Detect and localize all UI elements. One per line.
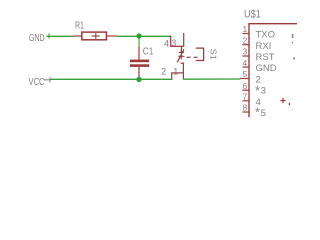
wire GND net left segment <box>47 35 74 37</box>
svg-text:U$1: U$1 <box>244 9 261 21</box>
svg-text:*: * <box>255 83 260 98</box>
capacitor C1 <box>130 47 149 79</box>
switch S1 bottom contact <box>181 63 185 73</box>
switch S1 lever <box>177 49 184 62</box>
svg-text:VCC: VCC <box>29 76 46 87</box>
svg-text:2: 2 <box>242 35 247 45</box>
IC U$1 pin 7 <box>242 100 249 102</box>
svg-text:GND: GND <box>29 32 45 44</box>
svg-text:RXI: RXI <box>256 41 272 52</box>
node VCC pin cross <box>44 77 51 82</box>
svg-text:*: * <box>255 105 260 117</box>
svg-text:3: 3 <box>242 47 247 57</box>
switch S1 pin 3 <box>183 33 185 46</box>
IC U$1 body <box>249 23 297 117</box>
svg-text:5: 5 <box>261 108 266 117</box>
IC U$1 red tick right <box>289 103 291 106</box>
junction bottom <box>136 77 141 82</box>
svg-text:TXO: TXO <box>256 30 276 41</box>
switch S1 dashed link <box>187 56 198 58</box>
svg-text:1: 1 <box>242 24 247 34</box>
IC U$1 pin numbers <box>242 24 247 113</box>
IC U$1 pin names <box>255 30 277 120</box>
junction top <box>136 33 141 38</box>
switch S1 pin 4 <box>170 36 172 47</box>
IC U$1 origin cross <box>280 98 285 103</box>
svg-text:S1: S1 <box>209 49 218 60</box>
wire VCC net left segment <box>50 78 171 80</box>
switch S1 pin 1 <box>182 73 184 80</box>
svg-text:GND: GND <box>256 63 277 74</box>
svg-text:5: 5 <box>242 69 247 79</box>
svg-text:7: 7 <box>242 92 247 102</box>
svg-text:R1: R1 <box>75 19 84 31</box>
IC U$1 pin 4 <box>242 66 249 68</box>
IC U$1 clipped right-side pin name slivers <box>292 34 295 60</box>
resistor R1 <box>73 32 117 40</box>
wire VCC net right segment <box>184 78 240 80</box>
IC U$1 pin 1 <box>242 33 249 35</box>
switch S1 button bracket <box>196 48 204 60</box>
svg-text:C1: C1 <box>143 46 153 57</box>
svg-text:3: 3 <box>261 86 266 97</box>
svg-text:8: 8 <box>242 103 247 113</box>
IC U$1 pin 3 <box>242 55 249 57</box>
node GND label <box>29 32 45 44</box>
switch S1 top bar <box>170 45 184 47</box>
svg-text:RST: RST <box>256 52 275 63</box>
switch S1 bottom bar <box>171 72 184 74</box>
IC U$1 pin 2 <box>242 44 249 46</box>
svg-text:6: 6 <box>242 81 247 91</box>
IC U$1 pin 6 <box>242 89 249 91</box>
svg-text:1: 1 <box>173 67 178 77</box>
svg-text:2: 2 <box>161 67 166 77</box>
svg-text:4: 4 <box>164 38 169 48</box>
IC U$1 pin 8 <box>242 111 249 113</box>
switch S1 top contact <box>179 46 184 52</box>
svg-text:4: 4 <box>242 58 247 68</box>
switch S1 origin cross <box>178 53 184 59</box>
switch S1 pin 2 <box>171 73 173 80</box>
IC U$1 pin 5 <box>240 78 250 80</box>
wire junction to C1 <box>138 36 140 47</box>
wire GND net right segment <box>117 35 171 37</box>
node GND pin cross <box>48 34 50 39</box>
